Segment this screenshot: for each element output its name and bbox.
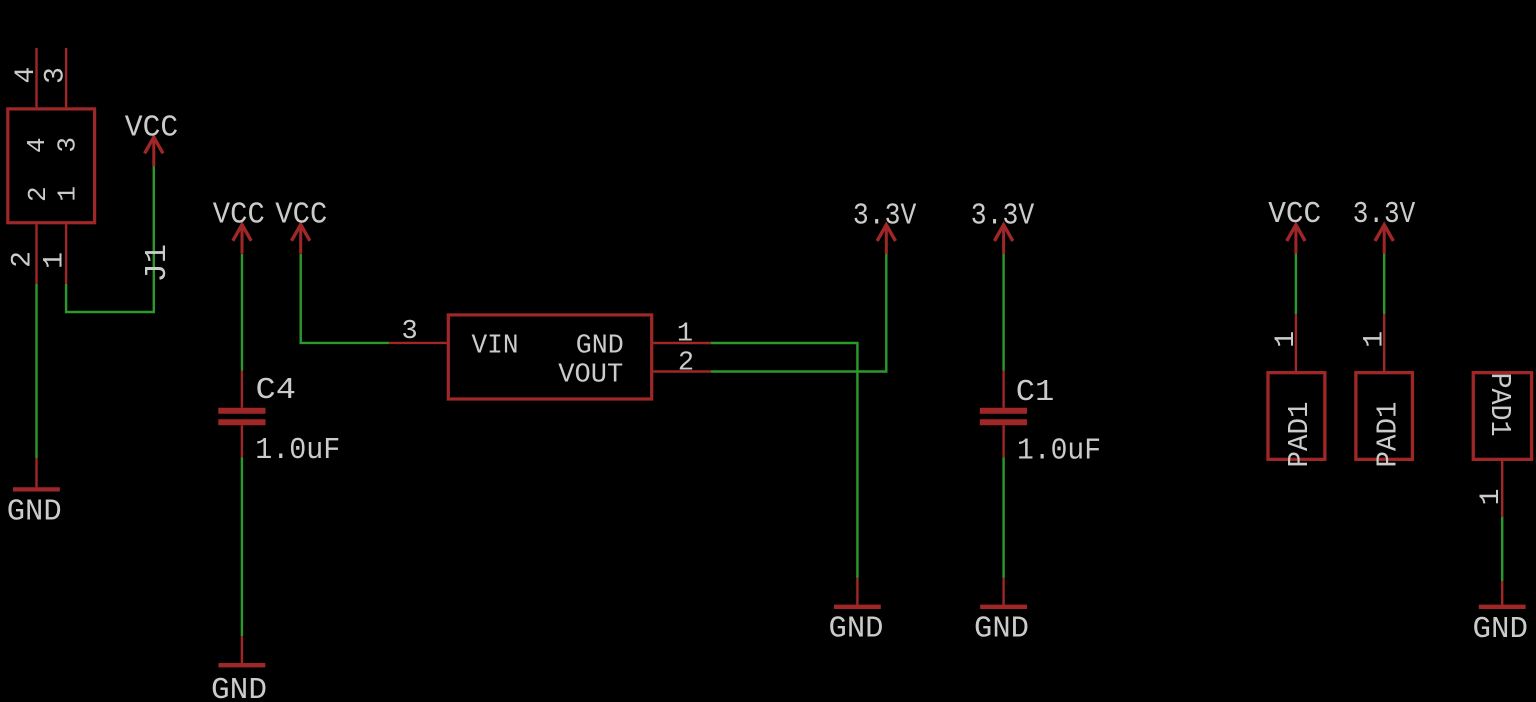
svg-text:4: 4 xyxy=(22,137,52,153)
svg-text:2: 2 xyxy=(8,251,39,268)
svg-text:1: 1 xyxy=(53,186,83,202)
svg-text:GND: GND xyxy=(576,332,624,362)
svg-text:VCC: VCC xyxy=(213,198,265,233)
svg-text:J1: J1 xyxy=(140,244,175,283)
svg-text:1.0uF: 1.0uF xyxy=(255,433,340,468)
svg-text:1: 1 xyxy=(39,252,70,269)
svg-text:GND: GND xyxy=(7,495,62,530)
svg-text:C4: C4 xyxy=(256,373,297,408)
svg-text:VCC: VCC xyxy=(1268,197,1321,232)
svg-text:4: 4 xyxy=(11,67,42,84)
svg-text:1: 1 xyxy=(1359,331,1390,348)
svg-text:1: 1 xyxy=(1476,489,1507,506)
svg-text:1: 1 xyxy=(677,320,693,350)
svg-text:3.3V: 3.3V xyxy=(971,198,1035,233)
svg-text:VOUT: VOUT xyxy=(558,361,623,391)
svg-text:3.3V: 3.3V xyxy=(1353,197,1416,232)
svg-text:1: 1 xyxy=(1271,331,1302,348)
svg-text:VIN: VIN xyxy=(472,332,519,362)
svg-text:PAD1: PAD1 xyxy=(1371,402,1404,468)
svg-text:3.3V: 3.3V xyxy=(853,198,917,233)
svg-text:GND: GND xyxy=(1473,612,1529,647)
svg-text:3: 3 xyxy=(40,67,71,84)
svg-text:1.0uF: 1.0uF xyxy=(1017,433,1101,468)
svg-text:VCC: VCC xyxy=(125,110,179,145)
svg-text:GND: GND xyxy=(974,612,1029,647)
svg-text:GND: GND xyxy=(211,673,267,702)
svg-text:3: 3 xyxy=(401,317,417,347)
svg-text:VCC: VCC xyxy=(275,198,327,233)
svg-text:C1: C1 xyxy=(1016,375,1055,410)
svg-text:PAD1: PAD1 xyxy=(1483,373,1516,437)
svg-text:2: 2 xyxy=(23,186,53,202)
svg-text:3: 3 xyxy=(53,137,83,153)
svg-text:GND: GND xyxy=(829,612,884,647)
svg-text:2: 2 xyxy=(678,349,694,379)
svg-text:PAD1: PAD1 xyxy=(1283,402,1316,468)
